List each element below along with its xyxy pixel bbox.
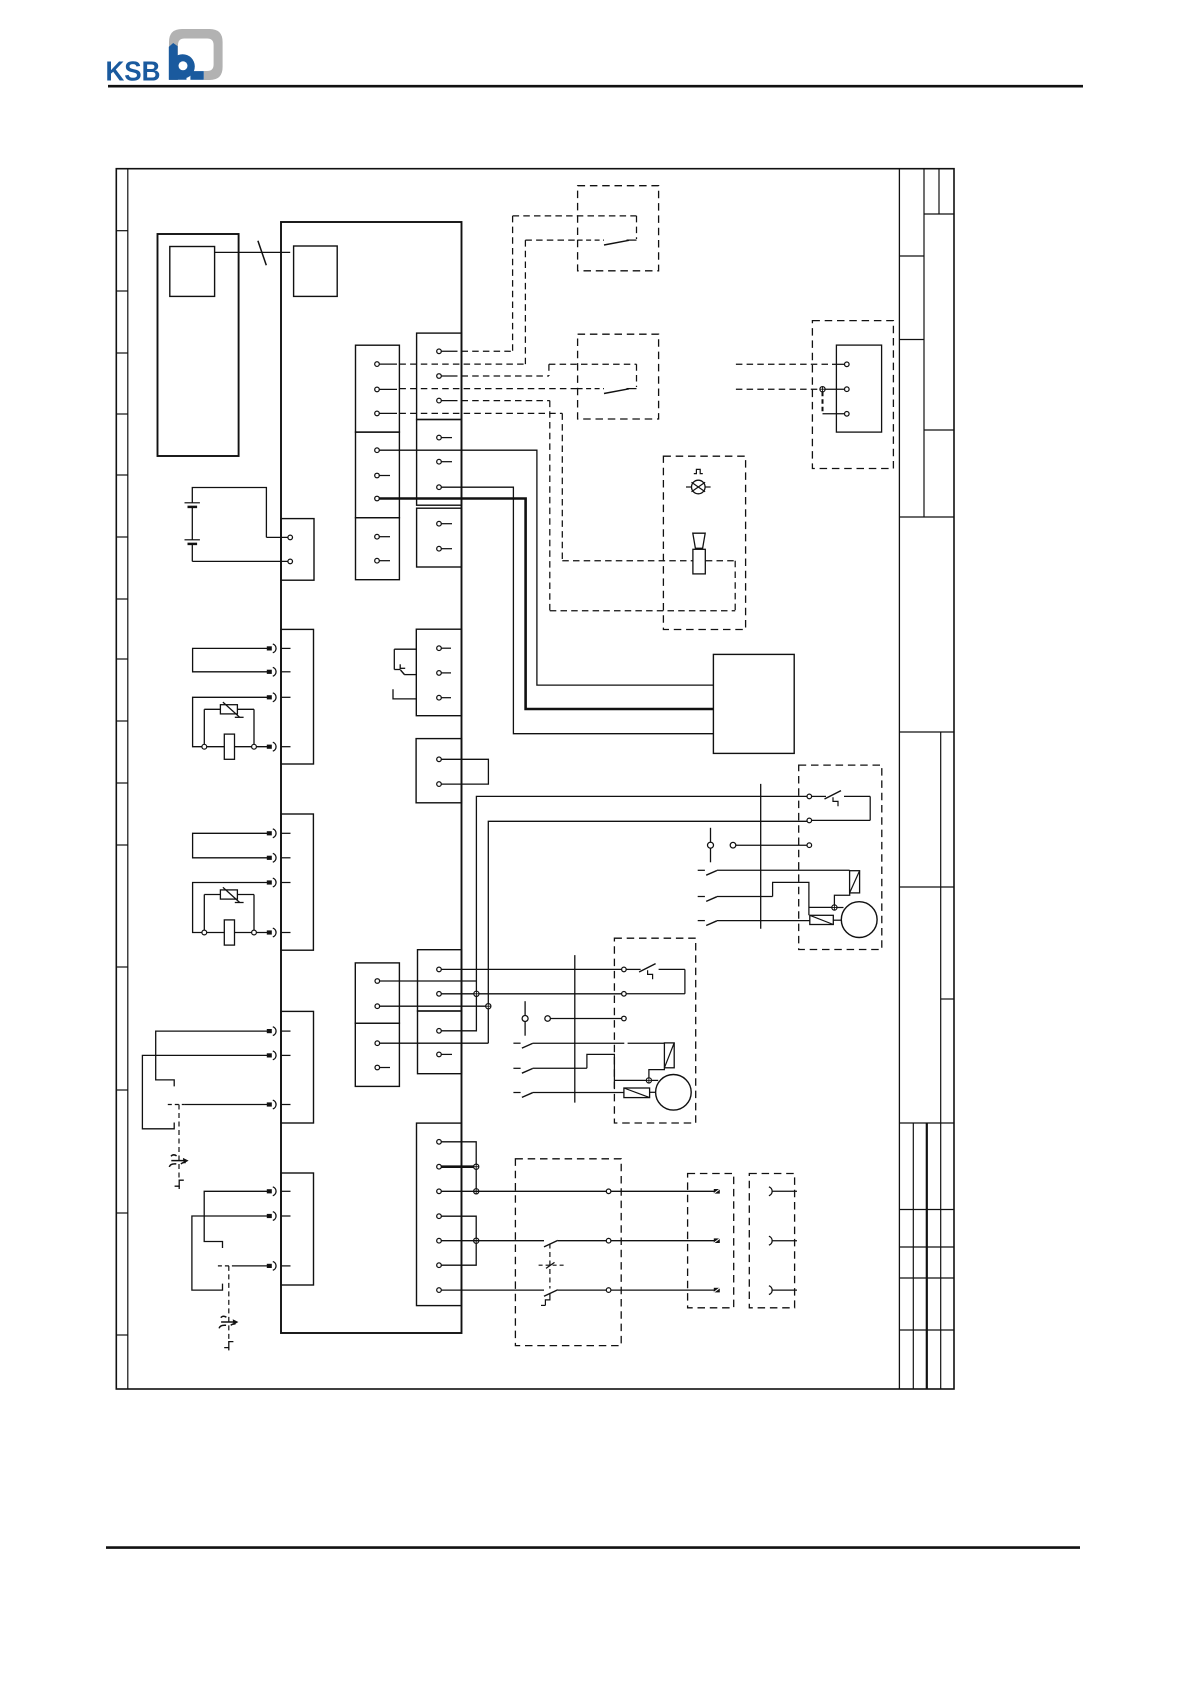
X10 pin 1 xyxy=(845,362,850,367)
sensor B1 clamp junction left xyxy=(202,744,207,749)
line 3 mid terminal xyxy=(606,1288,611,1293)
wire B4.2 to M2 xyxy=(441,993,621,995)
terminal A1.1 xyxy=(375,362,397,367)
connector X21 box xyxy=(749,1174,794,1308)
line 1 mid terminal xyxy=(606,1189,611,1194)
terminal B8.6 xyxy=(437,1263,442,1268)
wire B8.1 loop xyxy=(441,1142,476,1164)
terminal B2.3 xyxy=(437,485,442,490)
KSB logo mark xyxy=(169,29,223,80)
terminal B6.2 xyxy=(437,992,442,997)
junction B8a xyxy=(474,1164,479,1169)
thermal contact F1 stub xyxy=(393,689,416,699)
terminal B8.7 xyxy=(437,1288,442,1293)
motor1 junction stub xyxy=(837,907,844,909)
terminal B8.2 xyxy=(437,1164,442,1169)
pulse glyph xyxy=(694,469,703,473)
terminal strip B4 box xyxy=(416,629,461,716)
terminal B3.2 xyxy=(437,546,452,551)
sensor B1 sensor loop wires xyxy=(193,648,267,671)
junction B8c xyxy=(474,1238,479,1243)
Q1 aux dashes xyxy=(539,1262,564,1268)
float2 wire b xyxy=(192,1216,267,1290)
float1 step glyph xyxy=(175,1180,184,1189)
terminal B4.3 xyxy=(437,695,451,700)
connector X10 inner box xyxy=(836,345,881,432)
terminal B6.1 xyxy=(437,967,442,972)
float1 linkage dashed xyxy=(178,1105,180,1180)
frame border xyxy=(116,169,954,1389)
motor2 terminal 1 xyxy=(622,967,627,972)
terminal strip A2 box xyxy=(356,432,400,518)
terminal A1.2 xyxy=(375,387,397,392)
terminal B4.1 xyxy=(437,646,451,651)
terminal A4.1 xyxy=(375,979,380,984)
motor2 phase line xyxy=(574,955,576,1103)
loop wire B5 xyxy=(441,759,488,784)
motor2 plug link xyxy=(522,1001,622,1035)
connector block C2 xyxy=(281,814,313,950)
sensor B2 connector pin 3 xyxy=(267,878,291,887)
battery terminal 1 xyxy=(288,535,293,540)
sensor B1 connector pin 1 xyxy=(267,644,291,653)
float1 wire b xyxy=(142,1055,267,1128)
float1 connector pin a xyxy=(267,1027,291,1036)
X10 jumper xyxy=(820,387,845,414)
terminal B8.1 xyxy=(437,1140,442,1145)
motor1 contact 1 xyxy=(698,870,850,875)
footer rule xyxy=(106,1546,1080,1549)
terminal A1.3 xyxy=(375,411,397,416)
sensor B1 series resistor xyxy=(224,734,234,759)
wire A4.2 join xyxy=(380,1005,486,1007)
X21 socket 1 xyxy=(769,1187,797,1196)
float1 wire c xyxy=(168,1104,267,1106)
power supply box T1 xyxy=(713,654,794,753)
motor2 terminal 2 xyxy=(622,992,627,997)
title block grid xyxy=(899,169,954,1389)
sensor B1 connector pin 4 xyxy=(267,742,291,751)
motor1 terminal 1 xyxy=(807,794,812,799)
motor2 contact 2 xyxy=(513,1054,646,1088)
remote switch box S10 xyxy=(578,186,659,271)
control unit box xyxy=(281,222,462,1333)
sensor B1 connector pin 2 xyxy=(267,667,291,676)
sensor B2 connector pin 1 xyxy=(267,829,291,838)
motor M1 circle xyxy=(841,902,877,938)
signal box H1 xyxy=(663,456,745,629)
wire W3 dashed xyxy=(462,364,637,387)
junction V1 dot xyxy=(474,991,479,996)
terminal B3.1 xyxy=(437,521,452,526)
terminal A3.2 xyxy=(375,558,390,563)
motor1 contact 3 xyxy=(698,921,810,926)
motor1 phase line xyxy=(760,784,762,929)
line 3 blade xyxy=(544,1290,558,1297)
sensor B2 branch wire left xyxy=(204,895,220,933)
terminal strip B6 box xyxy=(418,950,462,1011)
motor2 junction xyxy=(646,1078,651,1083)
line 2 blade xyxy=(544,1240,558,1247)
module box A xyxy=(170,247,215,297)
wire B4.1 to M2 xyxy=(441,968,621,970)
X20 pin 1 xyxy=(714,1189,720,1194)
motor2 aux rect H xyxy=(624,1088,650,1098)
sensor B2 connector pin 2 xyxy=(267,853,291,862)
motor1 aux stub xyxy=(833,919,841,921)
frame left scale ticks xyxy=(116,231,128,1335)
motor1 breaker F2 xyxy=(812,791,871,821)
valve right lead dashed xyxy=(706,560,735,562)
terminal A3.1 xyxy=(375,534,390,539)
connector block C1 xyxy=(281,629,314,764)
junction B8b xyxy=(474,1189,479,1194)
wire A5.1 to contact xyxy=(380,1042,489,1044)
battery G1 with wiring xyxy=(185,488,288,562)
sensor B2 clamp junction right xyxy=(252,930,257,935)
float1 connector pin b xyxy=(267,1051,291,1060)
terminal strip A4 box xyxy=(355,963,399,1023)
wire W1 dashed xyxy=(462,216,637,351)
terminal strip B1 box xyxy=(417,333,462,419)
terminal B2.1 xyxy=(437,435,452,440)
terminal A4.2 xyxy=(375,1004,380,1009)
float1 connector pin c xyxy=(267,1100,291,1109)
motor1 contact 2 xyxy=(698,882,832,915)
terminal A5.2 xyxy=(375,1065,390,1070)
wire W4 dashed xyxy=(399,388,577,390)
float2 wire c xyxy=(218,1265,267,1267)
wire A4.1 join xyxy=(380,980,477,982)
terminal B1.2 xyxy=(437,374,458,379)
battery terminal box D xyxy=(281,519,314,581)
terminal B1.3 xyxy=(437,398,458,403)
float1 wire a xyxy=(156,1031,267,1086)
terminal B1.1 xyxy=(437,349,458,354)
connector X20 box xyxy=(688,1174,734,1308)
wire A2.1 to T1 xyxy=(379,450,713,685)
terminal B4.2 xyxy=(437,671,451,676)
terminal A2.1 xyxy=(375,448,380,453)
sensor B2 sensor loop wires xyxy=(193,833,267,858)
float2 connector pin b xyxy=(267,1212,291,1221)
motor2 terminal 3 xyxy=(622,1016,627,1021)
sensor B2 thermistor loop wires xyxy=(193,883,267,933)
wire W6 dashed xyxy=(399,413,692,560)
float2 step glyph xyxy=(224,1342,233,1351)
sensor B1 branch wire left xyxy=(204,709,220,746)
wire riser to M1 L xyxy=(441,796,809,1030)
header rule xyxy=(108,85,1083,88)
Q1 release hook xyxy=(541,1294,550,1306)
link B8 a-b xyxy=(475,1169,477,1188)
sensor B2 series resistor xyxy=(224,920,234,945)
terminal A2.2 xyxy=(375,473,390,478)
battery terminal 2 xyxy=(288,559,293,564)
connector block C3 xyxy=(281,1011,314,1123)
wire B8.4 loop xyxy=(441,1216,476,1238)
terminal A5.1 xyxy=(375,1041,380,1046)
float2 connector pin c xyxy=(267,1262,291,1271)
Q1 linkage xyxy=(549,1244,551,1289)
motor2 aux stub xyxy=(650,1091,656,1093)
motor1 aux rect H xyxy=(810,915,834,924)
terminal strip A5 box xyxy=(355,1023,399,1086)
motor1 dashed box xyxy=(799,765,882,949)
outgoing line 2 xyxy=(441,1240,714,1242)
KSB logo text xyxy=(106,56,161,87)
motor1 coil drop xyxy=(834,893,849,905)
float2 wire a xyxy=(204,1191,267,1248)
motor2 junction stub xyxy=(652,1079,659,1081)
X10 pin 2 xyxy=(845,387,850,392)
switch S10 contact xyxy=(578,240,637,245)
terminal strip B8 box xyxy=(417,1123,462,1306)
sensor B1 clamp junction right xyxy=(252,744,257,749)
main switch Q1 box xyxy=(515,1159,621,1346)
disconnect slash xyxy=(258,241,266,265)
terminal B8.4 xyxy=(437,1214,442,1219)
wire W5 dashed xyxy=(462,401,736,611)
wire W3a dashed xyxy=(736,363,845,365)
X20 pin 3 xyxy=(714,1288,720,1293)
valve Y1 xyxy=(693,533,706,574)
wire W4a dashed xyxy=(736,388,845,390)
sensor B2 connector pin 4 xyxy=(267,928,291,937)
terminal B7.2 xyxy=(437,1052,452,1057)
motor1 terminal 2 xyxy=(807,818,812,823)
terminal B2.2 xyxy=(437,459,452,464)
terminal strip B7 box xyxy=(418,1011,462,1074)
motor M2 circle xyxy=(656,1075,692,1111)
terminal B8.3 xyxy=(437,1189,442,1194)
line 2 mid terminal xyxy=(606,1238,611,1243)
frame left inner line xyxy=(127,169,129,1389)
X20 pin 2 xyxy=(714,1238,720,1243)
motor2 coil rect V xyxy=(664,1043,674,1068)
motor1 plug link xyxy=(708,828,808,863)
terminal strip B3 box xyxy=(417,508,462,567)
terminal B7.1 xyxy=(437,1029,442,1034)
motor2 coil drop xyxy=(649,1068,665,1078)
motor1 coil rect V xyxy=(850,871,860,893)
sensor B1 branch wire right xyxy=(237,709,254,746)
sensor B2 thermistor R xyxy=(220,887,243,902)
module box B xyxy=(294,246,338,296)
wire B8.2 thick xyxy=(441,1165,473,1168)
X10 pin 3 xyxy=(845,412,850,417)
terminal B8.5 xyxy=(437,1238,442,1243)
wire A2.3 to T1 thick xyxy=(379,499,713,710)
motor2 contact 3 xyxy=(513,1093,624,1098)
float switch S2 symbol xyxy=(219,1316,238,1328)
outgoing line 3 xyxy=(441,1289,714,1291)
terminal B5.2 xyxy=(437,782,442,787)
lamp H1 xyxy=(686,480,711,494)
X21 socket 3 xyxy=(769,1286,797,1295)
switch S11 contact xyxy=(578,389,637,394)
motor2 contact 1 xyxy=(513,1043,664,1048)
terminal B5.1 xyxy=(437,757,442,762)
link B8 c-d xyxy=(441,1243,476,1265)
float switch S1 symbol xyxy=(169,1155,188,1167)
motor1 junction xyxy=(832,905,837,910)
remote switch box S11 xyxy=(578,334,659,419)
sensor B2 branch wire right xyxy=(237,895,254,933)
connector block C4 xyxy=(281,1173,314,1285)
wire module A to module B xyxy=(215,251,291,253)
terminal A2.3 xyxy=(375,496,380,501)
sensor B1 thermistor R xyxy=(220,702,243,717)
svg-text:KSB: KSB xyxy=(106,56,161,87)
motor2 dashed box xyxy=(614,938,695,1123)
supply unit box xyxy=(158,234,239,456)
float2 linkage dashed xyxy=(228,1266,230,1341)
terminal strip B2 box xyxy=(417,420,462,506)
junction V2 dot xyxy=(486,1004,491,1009)
outgoing line 1 xyxy=(441,1190,714,1192)
terminal strip B5 box xyxy=(416,739,461,803)
wire B2.3 to T1 xyxy=(441,487,713,734)
X21 socket 2 xyxy=(769,1236,797,1245)
sensor B2 clamp junction left xyxy=(202,930,207,935)
float2 connector pin a xyxy=(267,1187,291,1196)
wire riser to M1 N xyxy=(488,821,807,1043)
connector X10 outer box xyxy=(812,321,893,469)
thermal contact F1 xyxy=(394,649,416,674)
sensor B1 thermistor loop wires xyxy=(193,697,267,746)
terminal strip A3 box xyxy=(356,518,400,580)
terminal strip A1 box xyxy=(356,345,400,432)
wire W2 dashed xyxy=(399,240,577,364)
motor2 breaker F3 xyxy=(626,964,685,994)
motor1 terminal 3 xyxy=(807,843,812,848)
sensor B1 connector pin 3 xyxy=(267,693,291,702)
